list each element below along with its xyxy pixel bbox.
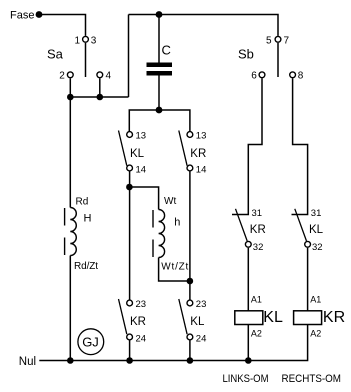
wire KL24 to Nul bus: [189, 341, 191, 361]
svg-text:13: 13: [196, 131, 207, 142]
svg-text:5: 5: [266, 35, 272, 46]
junction dot bus-contact 4: [97, 94, 104, 101]
svg-text:Fase: Fase: [10, 10, 34, 22]
svg-text:23: 23: [136, 299, 147, 310]
switch Sb blade: [277, 43, 279, 77]
svg-text:KL: KL: [309, 224, 324, 236]
contact KL 13-14 top terminal: [127, 132, 133, 138]
wire node to relay Wt: [129, 187, 158, 210]
svg-text:KL: KL: [130, 148, 145, 160]
svg-text:31: 31: [252, 208, 263, 219]
svg-text:C: C: [162, 43, 171, 58]
wire 14 to node: [129, 172, 131, 188]
svg-text:Sb: Sb: [238, 47, 254, 62]
svg-text:Rd/Zt: Rd/Zt: [74, 261, 98, 272]
svg-text:KR: KR: [323, 309, 345, 326]
switch Sa contact 2: [67, 72, 73, 78]
wire top bus to Sb: [129, 15, 279, 36]
svg-text:7: 7: [284, 35, 290, 46]
junction dot coil KL-bus: [245, 357, 252, 364]
svg-text:KR: KR: [190, 148, 206, 160]
svg-text:Nul: Nul: [19, 356, 36, 368]
svg-text:2: 2: [59, 71, 65, 82]
wire relay Rd to Nul bus: [69, 256, 71, 361]
wire riser to top bus: [128, 15, 130, 98]
contact KL 23-24 bottom terminal: [187, 334, 193, 340]
switch Sb pole terminal 5-7: [275, 36, 281, 42]
contact KR 23-24 blade: [119, 299, 127, 334]
contact KR 23-24 bottom terminal: [127, 334, 133, 340]
coil KL box: [235, 311, 263, 325]
junction dot KL14 node: [126, 184, 133, 191]
svg-text:31: 31: [311, 208, 322, 219]
wire contact 8 to contact KL31: [292, 78, 308, 214]
svg-text:RECHTS-OM: RECHTS-OM: [282, 373, 342, 385]
junction dot KL24-bus: [187, 357, 194, 364]
svg-text:1: 1: [74, 35, 80, 46]
contact KR 13-14 blade: [179, 131, 187, 166]
svg-text:Wt/Zt: Wt/Zt: [161, 262, 188, 273]
svg-text:Sa: Sa: [47, 47, 64, 62]
svg-text:KR: KR: [250, 224, 266, 236]
wire Fase to Sa pole: [39, 15, 86, 36]
svg-text:H: H: [84, 213, 92, 225]
relay coil Rd core: [64, 208, 66, 226]
svg-text:24: 24: [136, 333, 147, 344]
wire contact 2 to bus: [69, 78, 71, 97]
svg-text:Wt: Wt: [164, 196, 176, 207]
svg-text:A1: A1: [251, 295, 262, 305]
contact KR 13-14 top terminal: [187, 132, 193, 138]
svg-text:32: 32: [312, 242, 323, 253]
svg-text:KR: KR: [130, 316, 146, 328]
wire KL32 to coil KR: [307, 248, 309, 311]
contact KR 23-24 top terminal: [127, 300, 133, 306]
switch Sa pole terminal 1-3: [83, 36, 89, 42]
contact KL 13-14 bottom terminal: [127, 165, 133, 171]
junction dot Wt-KR14 node: [187, 278, 194, 285]
svg-text:32: 32: [253, 242, 264, 253]
contact KL 23-24 top terminal: [187, 300, 193, 306]
contact KL 31-32 bottom terminal: [305, 241, 311, 247]
wire node to contacts 13: [129, 110, 190, 131]
wire coil KL to Nul bus: [247, 325, 249, 361]
junction dot KR24-bus: [126, 357, 133, 364]
relay coil Wt winding: [159, 210, 165, 258]
svg-text:24: 24: [196, 333, 207, 344]
wire KR32 to coil KL: [247, 248, 249, 311]
capacitor C top plate: [147, 63, 173, 68]
contact KR 13-14 bottom terminal: [187, 165, 193, 171]
svg-text:14: 14: [136, 165, 147, 176]
switch Sb contact 8: [290, 72, 296, 78]
svg-text:LINKS-OM: LINKS-OM: [223, 373, 269, 385]
junction dot bus-Rd branch: [67, 94, 74, 101]
wire capacitor bottom lead: [158, 76, 160, 111]
svg-text:6: 6: [251, 71, 257, 82]
contact KL 31-32 blade: [295, 209, 307, 241]
wire Sa bus to relay Rd: [69, 97, 71, 208]
svg-text:3: 3: [91, 35, 97, 46]
wire relay Wt to node: [159, 258, 190, 282]
switch Sb contact 6: [259, 72, 265, 78]
coil KR box: [294, 311, 322, 325]
contact KR 31-32 bottom terminal: [245, 241, 251, 247]
wire contact 4 to bus: [99, 78, 101, 97]
junction dot capacitor tap: [156, 11, 163, 18]
svg-text:Rd: Rd: [76, 197, 89, 208]
junction dot Rd-bus: [67, 357, 74, 364]
switch Sa blade: [85, 43, 87, 77]
terminal dot Fase: [36, 11, 43, 18]
svg-text:4: 4: [106, 71, 112, 82]
svg-text:23: 23: [196, 299, 207, 310]
wire KR14 down to contact KL23: [189, 172, 191, 300]
wire bus under Sa: [70, 96, 128, 98]
svg-text:h: h: [174, 217, 180, 229]
relay coil Rd winding: [70, 208, 76, 256]
wire KL14 node down to contact KR23: [129, 187, 131, 300]
svg-text:KL: KL: [263, 309, 283, 326]
svg-text:8: 8: [298, 71, 304, 82]
svg-text:14: 14: [196, 165, 207, 176]
wire KR24 to Nul bus: [129, 341, 131, 361]
svg-text:A2: A2: [251, 329, 262, 339]
junction dot capacitor bottom node: [156, 107, 163, 114]
svg-text:13: 13: [136, 131, 147, 142]
svg-text:A2: A2: [310, 329, 321, 339]
contact KL 23-24 blade: [179, 299, 187, 334]
contact KR 31-32 blade: [236, 209, 248, 241]
svg-text:A1: A1: [310, 295, 321, 305]
switch Sa contact 4: [97, 72, 103, 78]
contact KL 13-14 blade: [119, 131, 127, 166]
wire capacitor top lead: [158, 15, 160, 63]
wire contact 6 to contact KR31: [232, 78, 262, 214]
capacitor C bottom plate: [147, 71, 173, 76]
svg-text:GJ: GJ: [82, 335, 99, 350]
generator GJ circle: [78, 329, 104, 355]
wire coil KR to Nul bus: [39, 325, 307, 361]
relay coil Wt core: [152, 210, 154, 228]
svg-text:KL: KL: [190, 316, 205, 328]
